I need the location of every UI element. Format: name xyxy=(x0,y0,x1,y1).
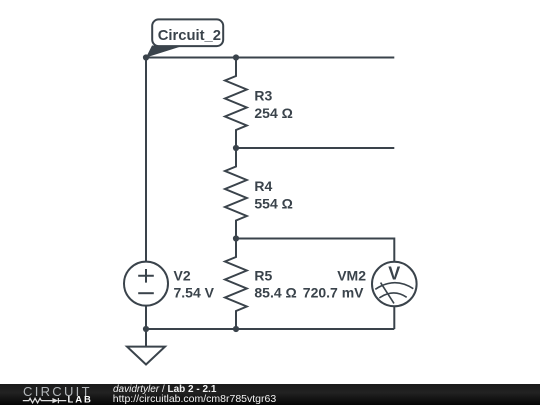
junction dot R3/R4 xyxy=(233,145,239,151)
node label Circuit_2 callout tail xyxy=(146,46,184,58)
V2 plus sign xyxy=(138,269,154,283)
svg-text:Circuit_2: Circuit_2 xyxy=(158,28,221,44)
svg-text:LAB: LAB xyxy=(68,395,93,405)
VM2 meter lower arc xyxy=(379,293,406,298)
svg-text:85.4 Ω: 85.4 Ω xyxy=(254,284,296,300)
ground symbol xyxy=(127,329,165,365)
voltage source V2 body xyxy=(124,262,168,306)
svg-text:R3: R3 xyxy=(254,87,272,103)
svg-text:R5: R5 xyxy=(254,268,272,284)
wire: R4/R5 junction to VM2 top xyxy=(236,239,394,263)
wire: R3/R4 junction to open stub right xyxy=(236,147,394,149)
CircuitLab logo xyxy=(0,384,110,405)
svg-text:554 Ω: 554 Ω xyxy=(254,196,292,212)
svg-text:VM2: VM2 xyxy=(337,268,366,284)
wire: top rail from node A to open stub right xyxy=(146,57,394,59)
wire: VM2 bottom lead xyxy=(393,306,395,329)
svg-text:720.7 mV: 720.7 mV xyxy=(303,284,364,300)
svg-text:V2: V2 xyxy=(174,268,191,284)
junction dot V2 bottom xyxy=(143,326,149,332)
wire: V2 bottom lead xyxy=(145,306,147,330)
node label Circuit_2 box xyxy=(152,19,223,46)
wire: left rail from node A down to V2 top xyxy=(145,58,147,262)
footer attribution line 2 xyxy=(113,394,276,405)
svg-text:7.54 V: 7.54 V xyxy=(174,284,215,300)
svg-text:V: V xyxy=(388,263,400,283)
footer attribution line 1 xyxy=(113,384,216,395)
junction dot R4/R5 xyxy=(233,235,239,241)
svg-text:R4: R4 xyxy=(254,178,272,194)
junction dot R3 top xyxy=(233,54,239,60)
logo schematic squiggle: wire, resistor, diode xyxy=(23,398,67,403)
VM2 meter upper arc xyxy=(375,283,413,290)
voltmeter VM2 body xyxy=(372,262,417,307)
VM2 meter needle xyxy=(381,283,394,304)
svg-text:254 Ω: 254 Ω xyxy=(254,105,292,121)
V2 minus sign xyxy=(138,292,154,294)
footer bar xyxy=(0,384,540,405)
resistor R4 xyxy=(225,148,247,239)
resistor R3 xyxy=(225,58,247,149)
wire: bottom rail xyxy=(146,328,394,330)
junction dot node A xyxy=(143,54,149,60)
resistor R5 xyxy=(225,239,247,330)
junction dot R5 bottom xyxy=(233,326,239,332)
